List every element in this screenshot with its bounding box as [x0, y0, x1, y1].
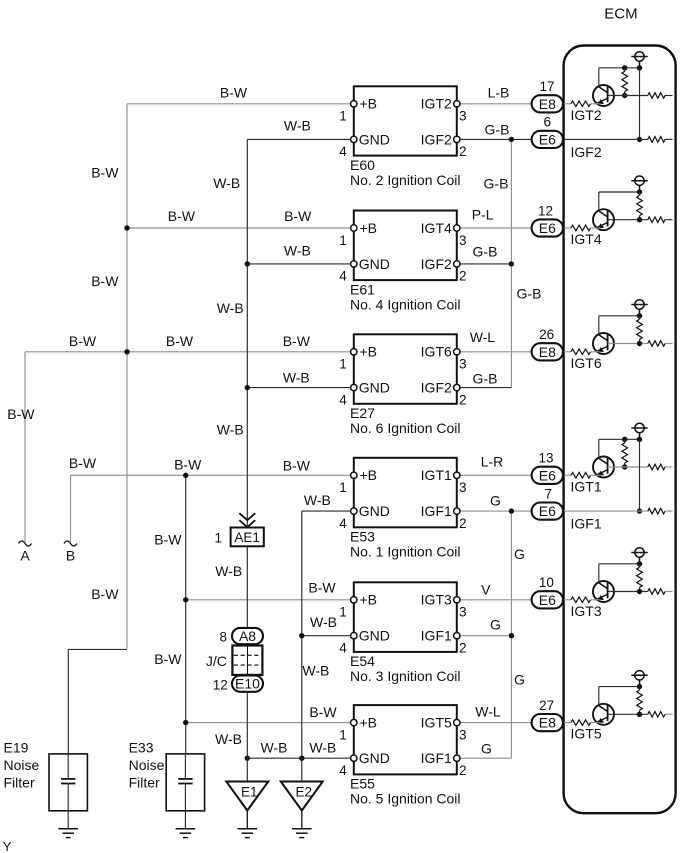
- svg-text:4: 4: [339, 763, 347, 778]
- ignition coil E61 (No. 4 Ignition Coil): [354, 211, 457, 281]
- junction G x511/row4: [509, 508, 514, 513]
- connector E8 pin 17: [532, 95, 563, 112]
- pin 2 (IGF) E54: [454, 633, 460, 639]
- connector A8: [232, 628, 263, 644]
- junction G-B x511/row1: [509, 137, 514, 142]
- svg-text:B-W: B-W: [308, 580, 336, 596]
- pin 4 (GND) E55: [351, 755, 357, 761]
- resistor base R5c: [648, 589, 665, 595]
- svg-text:W-B: W-B: [284, 242, 311, 258]
- svg-text:IGT2: IGT2: [571, 107, 602, 123]
- svg-text:GND: GND: [359, 380, 390, 396]
- junction base/power row3: [637, 341, 642, 346]
- junction resistor top row1: [622, 65, 627, 70]
- connector E8 pin 27: [532, 714, 563, 731]
- wire B-W row3 +B feed: [25, 351, 354, 353]
- svg-text:W-B: W-B: [261, 740, 288, 756]
- junction G-B x511/row2: [509, 261, 514, 266]
- transistor Q2: [593, 209, 614, 230]
- svg-text:12: 12: [538, 203, 553, 218]
- svg-text:IGF2: IGF2: [421, 256, 452, 272]
- svg-text:3: 3: [459, 233, 467, 248]
- junction x127/row3: [124, 349, 129, 354]
- svg-text:E2: E2: [296, 784, 313, 799]
- wire resistor to Q1: [591, 103, 601, 105]
- svg-text:G-B: G-B: [485, 122, 510, 138]
- svg-text:E8: E8: [539, 344, 556, 360]
- junction connector J/C: [232, 646, 262, 675]
- svg-text:4: 4: [339, 392, 347, 407]
- wire base row5: [608, 591, 648, 593]
- pin 3 (IGT) E60: [454, 101, 460, 107]
- power symbol row3: [631, 300, 647, 316]
- svg-text:1: 1: [339, 233, 347, 248]
- connector E6 pin 12: [532, 219, 563, 236]
- svg-text:3: 3: [459, 357, 467, 372]
- svg-text:E6: E6: [539, 131, 556, 147]
- junction x247/row3 GND: [245, 385, 250, 390]
- svg-text:G: G: [490, 617, 501, 633]
- resistor pullup R5b: [639, 564, 641, 568]
- wire emitter feed IGT row4: [563, 474, 571, 476]
- junction power/collector row3: [637, 313, 642, 318]
- svg-text:No. 5 Ignition Coil: No. 5 Ignition Coil: [350, 791, 461, 807]
- svg-text:No. 2 Ignition Coil: No. 2 Ignition Coil: [350, 172, 461, 188]
- junction x127/row2: [124, 225, 129, 230]
- wire B-W row4 +B feed: [71, 474, 354, 476]
- svg-text:AE1: AE1: [234, 530, 260, 545]
- wire G row5 stub: [457, 635, 512, 637]
- wire W-B vertical x302: [301, 511, 303, 781]
- svg-text:B-W: B-W: [7, 406, 35, 422]
- wire IGT output row4: [457, 474, 532, 476]
- svg-text:3: 3: [459, 109, 467, 124]
- wire G-B vertical x511 upper: [510, 139, 512, 387]
- ground point E2: [281, 782, 323, 811]
- resistor base R1c: [648, 93, 665, 99]
- svg-text:IGF1: IGF1: [421, 628, 452, 644]
- junction resistor bottom row4: [622, 464, 627, 469]
- pin 2 (IGF) E55: [454, 755, 460, 761]
- svg-text:G: G: [514, 672, 525, 688]
- wire drop to B: [70, 475, 72, 542]
- wire G row4 to E6: [457, 510, 532, 512]
- wire W-B E10 to E1: [246, 692, 248, 782]
- wire collector Q1: [598, 68, 600, 87]
- svg-text:G-B: G-B: [473, 371, 498, 387]
- svg-text:IGT6: IGT6: [571, 355, 602, 371]
- resistor base R2c: [648, 217, 665, 223]
- svg-text:10: 10: [539, 575, 554, 590]
- svg-text:W-B: W-B: [309, 740, 336, 756]
- svg-text:W-B: W-B: [310, 614, 337, 630]
- svg-text:+B: +B: [360, 96, 378, 112]
- wire B-W row2 +B feed: [127, 227, 354, 229]
- svg-text:2: 2: [459, 392, 467, 407]
- svg-text:IGT3: IGT3: [571, 603, 602, 619]
- svg-text:Filter: Filter: [4, 775, 35, 791]
- svg-text:W-B: W-B: [215, 731, 242, 747]
- svg-text:27: 27: [539, 698, 554, 713]
- wire B-W row1 +B feed: [127, 103, 354, 105]
- wire resistor to Q4: [591, 474, 601, 476]
- transistor Q5: [593, 581, 614, 602]
- wire B-W row5 +B feed: [186, 599, 354, 601]
- junction x247/row2 GND: [245, 261, 250, 266]
- svg-text:+B: +B: [360, 592, 378, 608]
- pin 3 (IGT) E53: [454, 472, 460, 478]
- svg-text:No. 3 Ignition Coil: No. 3 Ignition Coil: [350, 668, 461, 684]
- resistor input R6a: [571, 720, 591, 726]
- svg-text:+B: +B: [360, 715, 378, 731]
- pin 3 (IGT) E27: [454, 349, 460, 355]
- svg-text:B-W: B-W: [154, 651, 182, 667]
- pin 2 (IGF) E61: [454, 261, 460, 267]
- svg-text:+B: +B: [360, 344, 378, 360]
- svg-text:IGT4: IGT4: [571, 231, 602, 247]
- svg-text:W-B: W-B: [304, 492, 331, 508]
- svg-text:2: 2: [459, 763, 467, 778]
- svg-text:IGT6: IGT6: [421, 344, 452, 360]
- junction power/collector row5: [637, 561, 642, 566]
- resistor pullup R3b: [639, 316, 641, 320]
- wire base row4: [608, 466, 648, 468]
- svg-text:E54: E54: [350, 653, 375, 669]
- transistor Q3: [593, 333, 614, 354]
- svg-text:IGF2: IGF2: [421, 131, 452, 147]
- svg-text:3: 3: [459, 605, 467, 620]
- svg-text:L-R: L-R: [481, 454, 504, 470]
- ECM box U1: [564, 46, 676, 814]
- ignition coil E55 (No. 5 Ignition Coil): [354, 705, 457, 774]
- connector tail A: [19, 541, 32, 546]
- svg-text:E33: E33: [129, 740, 154, 756]
- wire IGT output row5: [457, 599, 532, 601]
- wire IGT output row6: [457, 722, 532, 724]
- wire collector Q5: [598, 564, 600, 583]
- pin 1 (+B) E27: [351, 349, 357, 355]
- svg-text:E61: E61: [350, 281, 375, 297]
- wire collector top row1: [599, 67, 640, 69]
- svg-text:E8: E8: [539, 96, 556, 112]
- resistor input R3a: [571, 349, 591, 355]
- wire IGF tail row1: [665, 138, 673, 140]
- junction G x511/row5: [509, 633, 514, 638]
- wire power vertical row1: [639, 68, 641, 140]
- svg-text:1: 1: [339, 727, 347, 742]
- resistor input R5a: [571, 597, 591, 603]
- junction power/collector row2: [637, 189, 642, 194]
- pin 4 (GND) E53: [351, 508, 357, 514]
- svg-text:E6: E6: [539, 467, 556, 483]
- svg-text:3: 3: [459, 727, 467, 742]
- wire emitter feed IGT row5: [563, 599, 571, 601]
- svg-text:G-B: G-B: [484, 175, 509, 191]
- wire drop to A: [24, 352, 26, 542]
- resistor base R6c: [648, 712, 665, 718]
- svg-text:E27: E27: [350, 405, 375, 421]
- resistor base R4c: [648, 464, 665, 470]
- resistor pullup R1b: [624, 68, 626, 72]
- connector E6 pin 7: [532, 503, 563, 520]
- svg-text:B-W: B-W: [174, 457, 202, 473]
- transistor Q1: [593, 85, 614, 106]
- pin 1 (+B) E54: [351, 597, 357, 603]
- svg-text:No. 1 Ignition Coil: No. 1 Ignition Coil: [350, 544, 461, 560]
- junction power/collector row6: [637, 684, 642, 689]
- svg-text:W-B: W-B: [213, 175, 240, 191]
- wire G row6 stub: [457, 757, 512, 759]
- svg-text:G-B: G-B: [517, 285, 542, 301]
- wire collector Q3: [598, 316, 600, 335]
- wire G-B row2 stub: [457, 263, 512, 265]
- junction power/collector row1: [637, 65, 642, 70]
- svg-text:G: G: [514, 546, 525, 562]
- wire W-B row6 GND: [247, 757, 353, 759]
- pin 4 (GND) E61: [351, 261, 357, 267]
- connector AE1 arrow: [239, 513, 255, 527]
- svg-text:B-W: B-W: [309, 704, 337, 720]
- svg-text:E6: E6: [539, 503, 556, 519]
- svg-text:12: 12: [213, 677, 228, 692]
- svg-text:1: 1: [339, 357, 347, 372]
- svg-text:J/C: J/C: [206, 653, 227, 669]
- svg-text:E55: E55: [350, 776, 375, 792]
- svg-text:GND: GND: [359, 256, 390, 272]
- svg-text:E10: E10: [235, 676, 260, 692]
- svg-text:4: 4: [339, 516, 347, 531]
- svg-text:G: G: [481, 741, 492, 757]
- wire G vertical x511 lower: [510, 511, 512, 758]
- pin 4 (GND) E27: [351, 384, 357, 390]
- wire collector Q2: [598, 192, 600, 211]
- svg-text:W-L: W-L: [470, 329, 496, 345]
- svg-text:IGF1: IGF1: [571, 516, 602, 532]
- svg-text:3: 3: [459, 480, 467, 495]
- svg-text:B-W: B-W: [283, 458, 311, 474]
- connector E8 pin 26: [532, 343, 563, 360]
- pin 1 (+B) E55: [351, 719, 357, 725]
- svg-text:W-B: W-B: [283, 370, 310, 386]
- ignition coil E53 (No. 1 Ignition Coil): [354, 458, 457, 528]
- svg-text:GND: GND: [359, 750, 390, 766]
- resistor base R3c: [648, 341, 665, 347]
- svg-text:1: 1: [339, 480, 347, 495]
- svg-text:B-W: B-W: [284, 208, 312, 224]
- svg-text:2: 2: [459, 641, 467, 656]
- wire W-B vertical x247 upper: [246, 139, 248, 527]
- svg-text:13: 13: [538, 451, 553, 466]
- svg-text:B-W: B-W: [166, 333, 194, 349]
- svg-text:W-B: W-B: [217, 422, 244, 438]
- svg-text:GND: GND: [359, 628, 390, 644]
- power symbol row2: [631, 176, 647, 192]
- svg-text:17: 17: [539, 79, 554, 94]
- wire base row6: [608, 713, 648, 715]
- wire base row2: [608, 219, 648, 221]
- wire IGF line row4: [563, 510, 648, 512]
- svg-text:IGF1: IGF1: [421, 750, 452, 766]
- connector E6 pin 6: [532, 131, 563, 148]
- svg-text:B-W: B-W: [220, 85, 248, 101]
- svg-text:W-B: W-B: [215, 563, 242, 579]
- svg-text:E19: E19: [4, 740, 29, 756]
- wire power vertical row4: [639, 439, 641, 511]
- connector tail B: [64, 541, 77, 546]
- junction resistor bottom row1: [622, 93, 627, 98]
- ground symbol E2: [292, 829, 312, 838]
- wire collector Q6: [598, 687, 600, 706]
- pin 3 (IGT) E61: [454, 225, 460, 231]
- junction x186/row5: [183, 597, 188, 602]
- svg-text:Y: Y: [3, 839, 12, 853]
- svg-text:A8: A8: [239, 628, 256, 644]
- svg-text:7: 7: [545, 486, 553, 501]
- resistor IGF R1d: [648, 137, 665, 143]
- pin 2 (IGF) E27: [454, 384, 460, 390]
- junction x186/row6: [183, 720, 188, 725]
- svg-text:E1: E1: [241, 784, 258, 799]
- pin 1 (+B) E60: [351, 101, 357, 107]
- ignition coil E60 (No. 2 Ignition Coil): [354, 86, 457, 155]
- wire base tail row1: [665, 95, 673, 97]
- svg-text:2: 2: [459, 269, 467, 284]
- svg-text:GND: GND: [359, 131, 390, 147]
- svg-text:E53: E53: [350, 529, 375, 545]
- wire W-B row1 GND: [247, 138, 353, 140]
- svg-text:E6: E6: [539, 220, 556, 236]
- svg-text:P-L: P-L: [472, 207, 494, 223]
- capacitor in E33: [178, 778, 192, 780]
- junction power/IGF row4: [637, 508, 642, 513]
- svg-text:IGF2: IGF2: [571, 144, 602, 160]
- svg-text:IGT4: IGT4: [421, 220, 452, 236]
- connector E6 pin 10: [532, 591, 563, 608]
- resistor pullup R2b: [639, 192, 641, 196]
- svg-text:B-W: B-W: [154, 532, 182, 548]
- svg-text:B: B: [66, 548, 75, 564]
- svg-text:Filter: Filter: [129, 775, 160, 791]
- wire IGT output row1: [457, 103, 532, 105]
- wire B-W vertical x127: [126, 104, 128, 649]
- wire resistor to Q2: [591, 227, 601, 229]
- resistor input R1a: [571, 101, 591, 107]
- svg-text:GND: GND: [359, 503, 390, 519]
- resistor pullup R6b: [639, 687, 641, 691]
- ground symbol E1: [238, 829, 258, 838]
- svg-text:26: 26: [539, 327, 554, 342]
- svg-text:6: 6: [544, 115, 552, 130]
- wire W-B row5 GND: [302, 635, 354, 637]
- svg-text:B-W: B-W: [69, 455, 97, 471]
- svg-text:2: 2: [459, 516, 467, 531]
- wire collector top row4: [599, 438, 640, 440]
- svg-text:IGT5: IGT5: [421, 715, 452, 731]
- ground E19: [58, 829, 78, 838]
- pin 2 (IGF) E60: [454, 136, 460, 142]
- wire resistor to Q3: [591, 351, 601, 353]
- junction resistor top row4: [622, 437, 627, 442]
- wire collector top row6: [599, 686, 640, 688]
- capacitor in E19: [61, 778, 75, 780]
- svg-text:W-B: W-B: [302, 662, 329, 678]
- wire emitter feed IGT row6: [563, 722, 571, 724]
- wire emitter feed IGT row1: [563, 103, 571, 105]
- junction power/IGF row1: [637, 137, 642, 142]
- svg-text:+B: +B: [360, 467, 378, 483]
- svg-text:B-W: B-W: [91, 165, 119, 181]
- wire B-W vertical x186: [185, 475, 187, 754]
- wire G-B row3 stub: [457, 387, 512, 389]
- wire base tail row6: [665, 713, 673, 715]
- wire emitter feed IGT row3: [563, 351, 571, 353]
- wire W-B row3 GND: [247, 387, 353, 389]
- svg-text:2: 2: [459, 144, 467, 159]
- svg-text:1: 1: [339, 109, 347, 124]
- pin 4 (GND) E54: [351, 633, 357, 639]
- wire IGT output row3: [457, 351, 532, 353]
- resistor IGF R4d: [648, 508, 665, 514]
- svg-text:L-B: L-B: [488, 85, 510, 101]
- wire base tail row2: [665, 219, 673, 221]
- power symbol row4: [631, 423, 647, 439]
- ground E33: [176, 829, 196, 838]
- resistor pullup R4b: [624, 439, 626, 443]
- svg-text:B-W: B-W: [69, 333, 97, 349]
- svg-text:8: 8: [219, 630, 227, 645]
- svg-text:No. 6 Ignition Coil: No. 6 Ignition Coil: [350, 420, 461, 436]
- svg-text:IGF1: IGF1: [421, 503, 452, 519]
- wire base row1: [608, 95, 648, 97]
- junction x302/row5 GND: [299, 633, 304, 638]
- wire base tail row3: [665, 343, 673, 345]
- wire E19 feed vertical: [67, 649, 69, 753]
- ignition coil E54 (No. 3 Ignition Coil): [354, 582, 457, 652]
- svg-text:4: 4: [339, 269, 347, 284]
- wire base tail row5: [665, 591, 673, 593]
- wire emitter feed IGT row2: [563, 227, 571, 229]
- svg-text:G-B: G-B: [473, 244, 498, 260]
- junction base/power row6: [637, 712, 642, 717]
- junction x302/row6 GND: [299, 756, 304, 761]
- svg-text:IGT1: IGT1: [571, 478, 602, 494]
- svg-text:W-B: W-B: [284, 117, 311, 133]
- svg-text:+B: +B: [360, 220, 378, 236]
- connector AE1 box: [231, 528, 264, 547]
- wire W-B row2 GND: [247, 263, 353, 265]
- wire resistor to Q6: [591, 722, 601, 724]
- ignition coil E27 (No. 6 Ignition Coil): [354, 334, 457, 404]
- svg-text:4: 4: [339, 641, 347, 656]
- svg-text:A: A: [20, 548, 30, 564]
- junction x247/row6 GND: [245, 756, 250, 761]
- svg-text:V: V: [481, 582, 491, 598]
- wire collector top row2: [599, 191, 640, 193]
- svg-text:W-L: W-L: [475, 704, 501, 720]
- transistor Q4: [593, 457, 614, 478]
- wire G-B row1 to E6: [457, 138, 532, 140]
- pin 2 (IGF) E53: [454, 508, 460, 514]
- pin 1 (+B) E53: [351, 472, 357, 478]
- pin 1 (+B) E61: [351, 225, 357, 231]
- svg-text:1: 1: [339, 605, 347, 620]
- svg-text:IGT1: IGT1: [421, 467, 452, 483]
- wire IGF tail row4: [665, 510, 673, 512]
- transistor Q6: [593, 704, 614, 725]
- wire B-W row6 +B feed: [186, 722, 354, 724]
- power symbol row1: [631, 52, 647, 68]
- wire collector top row3: [599, 315, 640, 317]
